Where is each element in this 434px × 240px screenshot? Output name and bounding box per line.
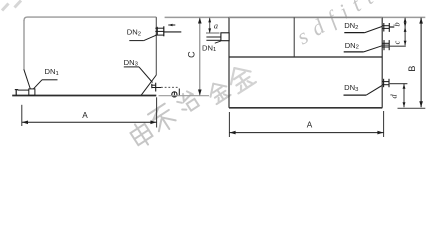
svg-text:a: a — [214, 21, 218, 30]
svg-text:B: B — [407, 66, 417, 72]
svg-text:c: c — [393, 40, 402, 44]
svg-text:A: A — [307, 120, 313, 129]
svg-text:C: C — [187, 51, 197, 58]
svg-text:A: A — [82, 111, 88, 120]
svg-text:b: b — [392, 22, 401, 26]
